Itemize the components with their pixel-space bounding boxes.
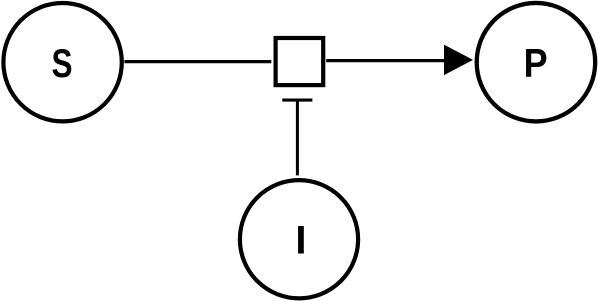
wire S to reaction box	[124, 60, 271, 63]
arrowhead to P	[444, 45, 473, 76]
node P	[477, 3, 596, 122]
inhibition T-bar	[282, 99, 312, 102]
svg-text:I: I	[295, 218, 306, 262]
wire I to T-bar	[296, 101, 299, 175]
reaction box	[276, 38, 324, 85]
wire reaction box to arrow	[326, 59, 444, 62]
svg-text:P: P	[524, 41, 548, 85]
node S	[3, 3, 121, 121]
node I	[240, 180, 358, 298]
svg-text:S: S	[52, 42, 73, 86]
